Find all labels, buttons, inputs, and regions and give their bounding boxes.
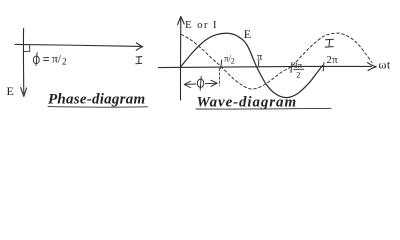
right-angle marker at phasor origin — [24, 45, 30, 51]
svg-text:π/: π/ — [52, 54, 62, 66]
svg-text:2: 2 — [231, 57, 235, 66]
tick 3pi/2 — [291, 63, 292, 73]
underline Wave-diagram — [196, 107, 331, 110]
curve label I — [325, 39, 333, 47]
dashed vertical at pi/2 (phase offset marker) — [218, 69, 220, 86]
svg-text:E: E — [244, 27, 251, 41]
svg-text:E: E — [7, 84, 14, 98]
underline Phase-diagram — [48, 106, 148, 109]
phase offset double arrow with phi — [184, 76, 217, 90]
label I (phasor) — [136, 57, 142, 64]
label phi = pi/2 (left diagram) — [33, 53, 48, 66]
wave x-axis (arrow right, label wt) — [159, 63, 377, 71]
dashed curve I (cosine) — [182, 33, 373, 89]
svg-text:3π: 3π — [294, 60, 303, 70]
tick 2pi — [322, 63, 325, 72]
tick pi — [257, 61, 260, 66]
svg-text:π: π — [257, 52, 263, 63]
solid curve E (sine) — [181, 33, 323, 97]
phasor axis E (vertical, arrow down) — [21, 29, 27, 97]
svg-text:2π: 2π — [327, 55, 339, 66]
wave y-axis (arrow up) — [178, 17, 185, 101]
svg-text:ωt: ωt — [379, 58, 391, 72]
svg-text:2: 2 — [296, 70, 300, 80]
tick pi/2 — [221, 60, 222, 69]
svg-text:E or I: E or I — [185, 19, 218, 31]
phasor axis I (horizontal, arrow right) — [15, 43, 143, 50]
svg-text:Wave-diagram: Wave-diagram — [197, 95, 298, 111]
svg-text:Phase-diagram: Phase-diagram — [48, 92, 145, 108]
svg-text:2: 2 — [62, 58, 67, 68]
